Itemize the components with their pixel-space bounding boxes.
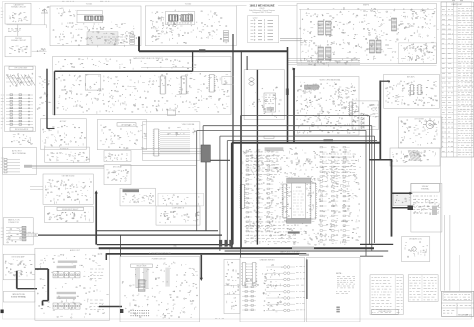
transformer T401 (hatched pair) (318, 21, 324, 35)
audio label bar 2b (shaded) (57, 297, 76, 299)
block: VIDEO CHROMA PROCESS (294, 77, 359, 136)
wire rows above chroma (287, 59, 360, 65)
bus: long vertical x233 (232, 34, 234, 244)
bus: drop from junction block (205, 162, 207, 231)
block: component in body (156, 206, 200, 225)
bus label box on band (292, 247, 314, 250)
bus: nested corner 4 (220, 135, 375, 137)
audio driver pairs row 1 Q601-Q605 (53, 272, 80, 278)
block: parts list A (370, 275, 403, 315)
IF wire (141, 67, 196, 69)
block: NOTES (306, 258, 360, 323)
IC801 comb (409, 85, 414, 95)
block: CASSETTE SIGNAL CIRCUIT (top-left) (5, 3, 31, 24)
wire from antenna (44, 13, 46, 25)
bus: corner to x391 (369, 159, 392, 161)
audio label bar 1a (shaded) (58, 261, 77, 263)
AV wire bundle (32, 165, 104, 168)
bus: nested bottoms right (360, 243, 393, 245)
parts right of box (403, 8, 439, 32)
IC203 (detector) (208, 75, 215, 93)
bus stub into IF (192, 51, 194, 71)
IC301 (shaded) (305, 85, 319, 89)
svg-text:CONNECTOR: CONNECTOR (8, 222, 20, 224)
block: narrow aux right of power (224, 260, 240, 314)
shield area (shaded) (87, 32, 118, 44)
bus: main B+ band (99, 247, 374, 249)
bottom connector (168, 110, 176, 116)
antenna symbol AN1 (41, 9, 48, 14)
crt area parts (249, 87, 281, 118)
IC101 hatched block A (85, 16, 94, 20)
parts under RF box (11, 134, 32, 145)
block: DEGAUSS COIL (402, 237, 430, 262)
connector dots rows (130, 310, 149, 316)
bus: vertical x287 (SMPS feed) (287, 47, 289, 143)
small box near IF right edge (222, 76, 234, 84)
IC202 (sound IF) (180, 76, 187, 94)
IC501 body (white) (292, 183, 306, 218)
SMPS top rail (299, 8, 434, 10)
block: RF CONVERTER (left) (5, 66, 36, 132)
boundary wire (7, 24, 47, 26)
audio parts cluster (37, 254, 109, 319)
antenna input labels (62, 0, 74, 2)
IC501 top bar (shaded) (287, 178, 311, 183)
pin network rows right of IC501 (320, 147, 350, 242)
block: TUNER TU102 (145, 6, 236, 46)
bus into audio (thick L) (35, 268, 48, 270)
bus drop 2 (42, 301, 44, 306)
audio driver pairs row 2 Q606-Q610 (53, 303, 80, 309)
connector comb left of main area (240, 184, 246, 208)
resistor/capacitor cluster R11-R18 (9, 46, 28, 54)
block: MAIN B+ IN CONNECTOR (3, 218, 33, 245)
power relay label box (131, 264, 153, 267)
regulator IC (hatched) (392, 18, 397, 31)
bus: IF supply horizontal (139, 50, 288, 52)
parts column right of RF box (37, 75, 51, 115)
block: ON SOUND AMP (3, 254, 35, 280)
block: CRT SOCKET PCB (244, 70, 284, 120)
audio label bar 2a (shaded) (57, 292, 76, 294)
audio label bar 1b (shaded) (57, 266, 76, 268)
x-ray comb (348, 102, 354, 115)
title rule (236, 5, 247, 7)
connector ladder rows (6, 94, 33, 125)
bus vertical left of IF (54, 71, 56, 115)
block: X-RAY PROTECT (352, 101, 379, 129)
chassis mid parts (262, 265, 283, 312)
side av parts rows (413, 196, 439, 213)
bus: short thick y160 (210, 159, 230, 161)
jack connector rows (4, 159, 20, 173)
page corner marks (452, 0, 463, 2)
bus stub from power area (99, 306, 122, 308)
tuner2 parts cluster (151, 10, 227, 44)
svg-text:TERMINAL: TERMINAL (421, 188, 430, 191)
audio right labels row2 (90, 300, 104, 310)
sound out parts (122, 193, 153, 204)
svg-text:JACK TERMINAL: JACK TERMINAL (12, 152, 26, 155)
power transformer T801 (hatched) (138, 280, 145, 292)
CRT socket circle V1 (423, 118, 437, 129)
tuner parts cluster L101-L115 C101-C130 (53, 22, 137, 48)
wires into amp (30, 186, 43, 188)
junction arrows (293, 68, 296, 71)
transformer winding strip 2 (143, 268, 149, 289)
connector blob on IF bus (199, 49, 205, 52)
svg-text:RF MODULATOR: RF MODULATOR (15, 128, 29, 131)
block: PHONO SIGNAL CIRCUIT (5, 36, 31, 57)
bus riser with arrow (to amp) (95, 192, 97, 245)
switch rows lower-left (242, 286, 256, 311)
connector blobs on vertical buses (219, 240, 222, 247)
dense parts cluster around T401/T402 (300, 7, 436, 62)
page footer mark (215, 318, 224, 320)
svg-text:SOUND IF: SOUND IF (60, 149, 69, 151)
deflection coils DY1 (ovals) (249, 78, 254, 85)
power parts cluster (122, 262, 197, 318)
sub-block: H drive (inside SMPS box bottom-right) (399, 43, 437, 64)
legend symbol table box (248, 16, 279, 43)
block: AFC / APC (384, 74, 440, 108)
x-ray labels col (373, 105, 380, 117)
left margin tick labels top (1, 8, 4, 18)
block: AFT body B (97, 120, 146, 150)
CRT socket sub-board (264, 93, 276, 112)
bus: stub to connector blob (392, 207, 409, 209)
table rows (441, 11, 474, 152)
title block (441, 291, 473, 316)
fan-out wires (160, 131, 190, 154)
block: POWER CIRCUIT (120, 257, 200, 323)
svg-text:TU101: TU101 (86, 4, 93, 6)
bus: second thick band (bottom PCB edge) (106, 253, 306, 255)
block: CRT DRIVE (399, 117, 442, 148)
degauss thermistor circle (412, 247, 416, 251)
block: VERTICAL AMP (43, 174, 93, 204)
block: 4.5MHz TRAP (104, 151, 131, 162)
block: SOUND IF (45, 147, 90, 162)
via marker (dark) (324, 139, 334, 141)
net label box above main area (264, 136, 274, 138)
protect diodes D901-D904 (361, 113, 364, 129)
audio right labels row1 (90, 269, 104, 279)
svg-text:TU102: TU102 (185, 4, 192, 6)
connector comb A (241, 263, 247, 286)
list A footer label (372, 310, 399, 315)
svg-text:SMPS: SMPS (363, 4, 370, 6)
svg-text:SIGNAL CIRCUIT: SIGNAL CIRCUIT (11, 6, 27, 9)
block label: AFT CIRCUIT (117, 123, 136, 126)
bus: nested corner 2 (203, 125, 372, 127)
wire: bus to power box corner (120, 235, 122, 256)
bus: thick vertical x380 (379, 81, 381, 160)
IC501 bottom bar (shaded) (287, 219, 312, 224)
block: POWER SUPPLY / DEFLECTION (top-right) (297, 4, 437, 64)
note text block (8, 29, 21, 32)
notes text (337, 277, 355, 288)
block: TUNER TU101 (50, 6, 141, 46)
IC102 hatched block A (169, 15, 179, 21)
bus: nested corner 5 (227, 140, 377, 142)
AFT parts cluster A (42, 125, 86, 147)
IF parts cluster top (55, 58, 196, 70)
svg-text:AFC APC: AFC APC (407, 75, 415, 78)
bus: nested corner 1 (240, 115, 369, 117)
block: AFC DELAY (104, 165, 131, 185)
svg-text:CRT DRIVE: CRT DRIVE (414, 119, 424, 121)
svg-text:DEGAUSS COIL: DEGAUSS COIL (409, 237, 422, 240)
revision marks (336, 307, 339, 313)
left margin tick labels middle (1, 158, 4, 168)
IC501 left pin comb (282, 184, 288, 218)
flyback hatch (408, 150, 421, 161)
sub-module inside TU101 (77, 11, 103, 23)
block: SAW FILTER / VIDEO IF (53, 57, 232, 115)
bus: drop right of power box (200, 255, 202, 278)
connector stack right edge tuner1 (130, 35, 135, 44)
AFT parts cluster B (100, 125, 147, 150)
svg-text:VIDEO CHROMA SIGNAL: VIDEO CHROMA SIGNAL (319, 78, 340, 81)
wires lower-left of tuner (32, 50, 47, 52)
junction block (dark) (201, 145, 210, 162)
table text (442, 10, 446, 152)
transformer T402 (hatched pair) (318, 47, 324, 60)
bus: left RF feed vertical (46, 69, 48, 129)
bus: tuner AGC thick corner (138, 37, 140, 52)
connector stack right edge tuner2 (223, 31, 228, 42)
svg-text:RF CONV UNIT: RF CONV UNIT (15, 68, 29, 70)
IC201 (video IF amp) (159, 76, 166, 94)
bus: y244.6 reach (97, 244, 233, 246)
connector pigtails to B+ band (20, 232, 38, 234)
afc parts (386, 80, 438, 106)
page edge mark (black) (1, 310, 4, 314)
SAW filter SF201 box (85, 75, 101, 91)
svg-text:symbol: symbol (253, 17, 258, 19)
transformer winding strip 1 (135, 268, 140, 289)
wire to block 2 (17, 24, 19, 36)
shaded sub-bar near IC501 (265, 147, 284, 151)
block: chroma input body (142, 122, 200, 161)
bus B+ thick (top of IF) (55, 70, 193, 72)
block: parts list B (408, 275, 438, 302)
block: faint coupling box (158, 193, 204, 206)
transformer winding strip 3 (165, 268, 169, 287)
component on SMPS bus (286, 89, 289, 96)
resistor/capacitor cluster R1-R8 C1-C6 (9, 13, 28, 22)
bottom label (10, 127, 33, 131)
bus: nested corner 3 (197, 130, 366, 132)
svg-text:ON TIME SOUND: ON TIME SOUND (62, 176, 76, 178)
bus: stub arrow to H-OUT (392, 192, 412, 194)
pin dash row under IC102 (169, 22, 192, 23)
svg-text:COMPONENT IN: COMPONENT IN (172, 208, 185, 210)
bus: long dark vertical x257.4 (256, 70, 258, 245)
left margin tick labels lower (1, 228, 4, 238)
bus: main thick band y143 (232, 142, 380, 144)
interconnect wires (246, 264, 253, 284)
IF parts cluster main (56, 73, 230, 113)
dark net label (below IC) (288, 231, 300, 233)
fuse block (dark) (120, 309, 123, 313)
title bar (9, 66, 33, 69)
bus: long vertical x241 (240, 52, 242, 248)
wires AFT to junction (142, 148, 201, 150)
block: AUDIO OUTPUT (35, 248, 110, 320)
IC102 hatched block B (181, 15, 193, 21)
bus corner top right of audio (105, 253, 107, 260)
vertical amp parts (45, 179, 92, 205)
pin network rows left of IC501 (246, 151, 273, 232)
IC101 hatched block B (95, 16, 103, 20)
block label: SPEAKER OUT TERMINAL (3, 291, 35, 302)
wire: IF box bottom to AFT (120, 164, 197, 166)
block: SOUND OUT (123, 189, 140, 192)
on-sound parts (5, 259, 35, 276)
bus bundle: B+ feeds left (97, 230, 218, 232)
connector comb B (251, 263, 257, 286)
sound IF parts (47, 152, 89, 163)
block: BIAS NETWORK (45, 206, 94, 222)
block: H-OUT (393, 193, 410, 206)
bus: vertical x247 (CRT box edge feed) (246, 56, 248, 70)
tuning coils L1-L4 (diagonal) (7, 75, 36, 86)
block: AFT body A (40, 119, 86, 149)
connector pins CN601 (6, 226, 26, 241)
edge pin labels (1, 95, 5, 128)
IC802 comb (417, 85, 422, 95)
input wires (280, 38, 302, 40)
shaded connector bar (432, 206, 437, 215)
tuner2 sub-module box (165, 12, 195, 25)
wire channel verticals (right margin) (440, 157, 442, 291)
block: CHASSIS INTERCONNECT (240, 258, 305, 323)
crt drive parts (400, 119, 438, 145)
SMPS bottom double border (297, 64, 437, 66)
block: SIDE AV PCB (411, 183, 442, 232)
bus: vertical x294 with junction dot (293, 69, 295, 143)
round connector pairs (266, 266, 295, 312)
svg-text:SIDE AV: SIDE AV (422, 185, 429, 188)
svg-text:Designed: R&D TV Korea: Designed: R&D TV Korea (252, 11, 271, 14)
svg-text:SAW FILTER VIDEO IF CIRCUIT: SAW FILTER VIDEO IF CIRCUIT (133, 57, 163, 60)
main board dense area: jungle IC IC501 and periphery (242, 147, 361, 245)
legend symbol rows (251, 19, 274, 21)
chroma parts cluster (296, 82, 358, 134)
IC501 right pin comb (310, 183, 317, 219)
notes left dark bar (306, 259, 308, 299)
svg-text:SIGNAL CIRCUIT: SIGNAL CIRCUIT (11, 39, 27, 42)
thick bus drop in sound amp (16, 271, 18, 289)
connector CN201 comb (153, 129, 160, 156)
block: focus pack (390, 148, 440, 166)
svg-text:IC501: IC501 (296, 187, 301, 189)
ferrite bead FB1 (shaded) (24, 165, 32, 168)
block: AV IN / EXT TERMINAL (3, 148, 37, 175)
wire name labels (296, 267, 305, 310)
label VT/BT/AGC (104, 37, 126, 43)
driver ICs (hatched pair) (370, 40, 375, 53)
parts list table (441, 2, 474, 157)
svg-text:SOUND INPUT SELECT: SOUND INPUT SELECT (62, 209, 79, 211)
bus label box on band 2 (299, 254, 309, 256)
